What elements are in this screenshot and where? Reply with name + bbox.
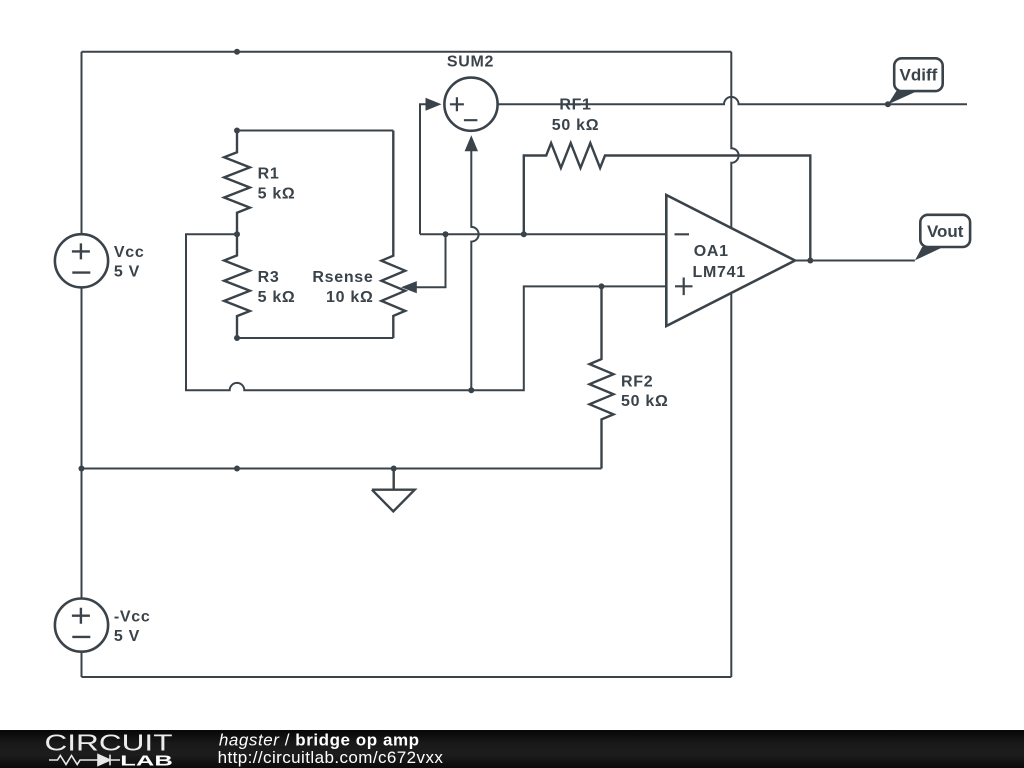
summer SUM2	[426, 53, 498, 151]
footer bar	[0, 730, 1024, 768]
node RF1 / minus input	[521, 231, 527, 237]
svg-text:5 V: 5 V	[114, 628, 140, 645]
svg-text:RF2: RF2	[621, 374, 653, 391]
svg-text:SUM2: SUM2	[447, 53, 494, 70]
resistor R3	[224, 234, 250, 338]
voltage source -Vcc	[55, 599, 151, 652]
svg-text:10 kΩ: 10 kΩ	[326, 289, 373, 306]
resistor RF1	[524, 143, 811, 261]
node SUM2 bottom input junction	[468, 387, 474, 393]
potentiometer Rsense body	[381, 131, 405, 339]
svg-text:hagster / bridge op amp: hagster / bridge op amp	[219, 730, 420, 749]
svg-text:LAB: LAB	[120, 753, 173, 768]
wire SUM2 bottom input with hop	[471, 148, 478, 390]
node ground rail / left rail	[79, 466, 85, 472]
wire potentiometer wiper branch	[412, 234, 446, 287]
svg-text:Rsense: Rsense	[312, 269, 373, 286]
footer logo resistor-diode glyph	[49, 755, 120, 766]
voltage source Vcc	[55, 234, 145, 287]
wire top rail	[82, 51, 732, 53]
op-amp OA1	[666, 195, 795, 326]
node RF2 / plus input	[599, 283, 605, 289]
svg-text:5 kΩ: 5 kΩ	[258, 289, 296, 306]
wire right edge with hop over RF1 feedback	[731, 52, 738, 677]
wire mid node to lower run and op-amp plus input	[186, 234, 666, 390]
node ground rail / ground stem	[391, 466, 397, 472]
flag Vout	[915, 215, 970, 261]
resistor RF2	[590, 286, 614, 468]
svg-text:50 kΩ: 50 kΩ	[552, 117, 599, 134]
node ground rail / bridge	[234, 466, 240, 472]
svg-text:50 kΩ: 50 kΩ	[621, 393, 668, 410]
wire bridge top	[237, 130, 393, 132]
svg-text:CIRCUIT: CIRCUIT	[45, 729, 173, 755]
wire output to Vout	[795, 260, 915, 262]
svg-text:5 V: 5 V	[114, 264, 140, 281]
svg-text:Vout: Vout	[927, 222, 964, 241]
svg-text:R3: R3	[258, 269, 280, 286]
wire SUM2 output to Vdiff	[498, 97, 967, 104]
node bridge bottom	[234, 335, 240, 341]
wire left rail	[81, 52, 83, 677]
svg-text:http://circuitlab.com/c672vxx: http://circuitlab.com/c672vxx	[218, 748, 444, 767]
node wiper / minus input	[443, 231, 449, 237]
wire op-amp minus input row	[420, 233, 666, 235]
node bridge top	[234, 128, 240, 134]
svg-text:-Vcc: -Vcc	[114, 608, 151, 625]
ground	[372, 469, 415, 512]
resistor R1	[224, 131, 250, 235]
svg-text:R1: R1	[258, 166, 280, 183]
wire bottom rail	[82, 676, 732, 678]
flag Vdiff	[888, 58, 943, 104]
wire bridge bottom	[237, 337, 393, 339]
svg-text:RF1: RF1	[559, 97, 591, 114]
svg-text:OA1: OA1	[694, 243, 729, 260]
svg-text:LM741: LM741	[693, 264, 746, 281]
potentiometer Rsense wiper arrow	[401, 281, 417, 293]
node output feedback	[807, 258, 813, 264]
wire ground rail	[82, 468, 602, 470]
node Vdiff tap	[885, 101, 891, 107]
svg-text:Vdiff: Vdiff	[900, 66, 938, 85]
wire SUM2 left input	[420, 104, 429, 234]
node top rail / R1	[234, 49, 240, 55]
svg-text:5 kΩ: 5 kΩ	[258, 186, 296, 203]
node R1/R3 mid	[234, 231, 240, 237]
svg-text:Vcc: Vcc	[114, 244, 145, 261]
